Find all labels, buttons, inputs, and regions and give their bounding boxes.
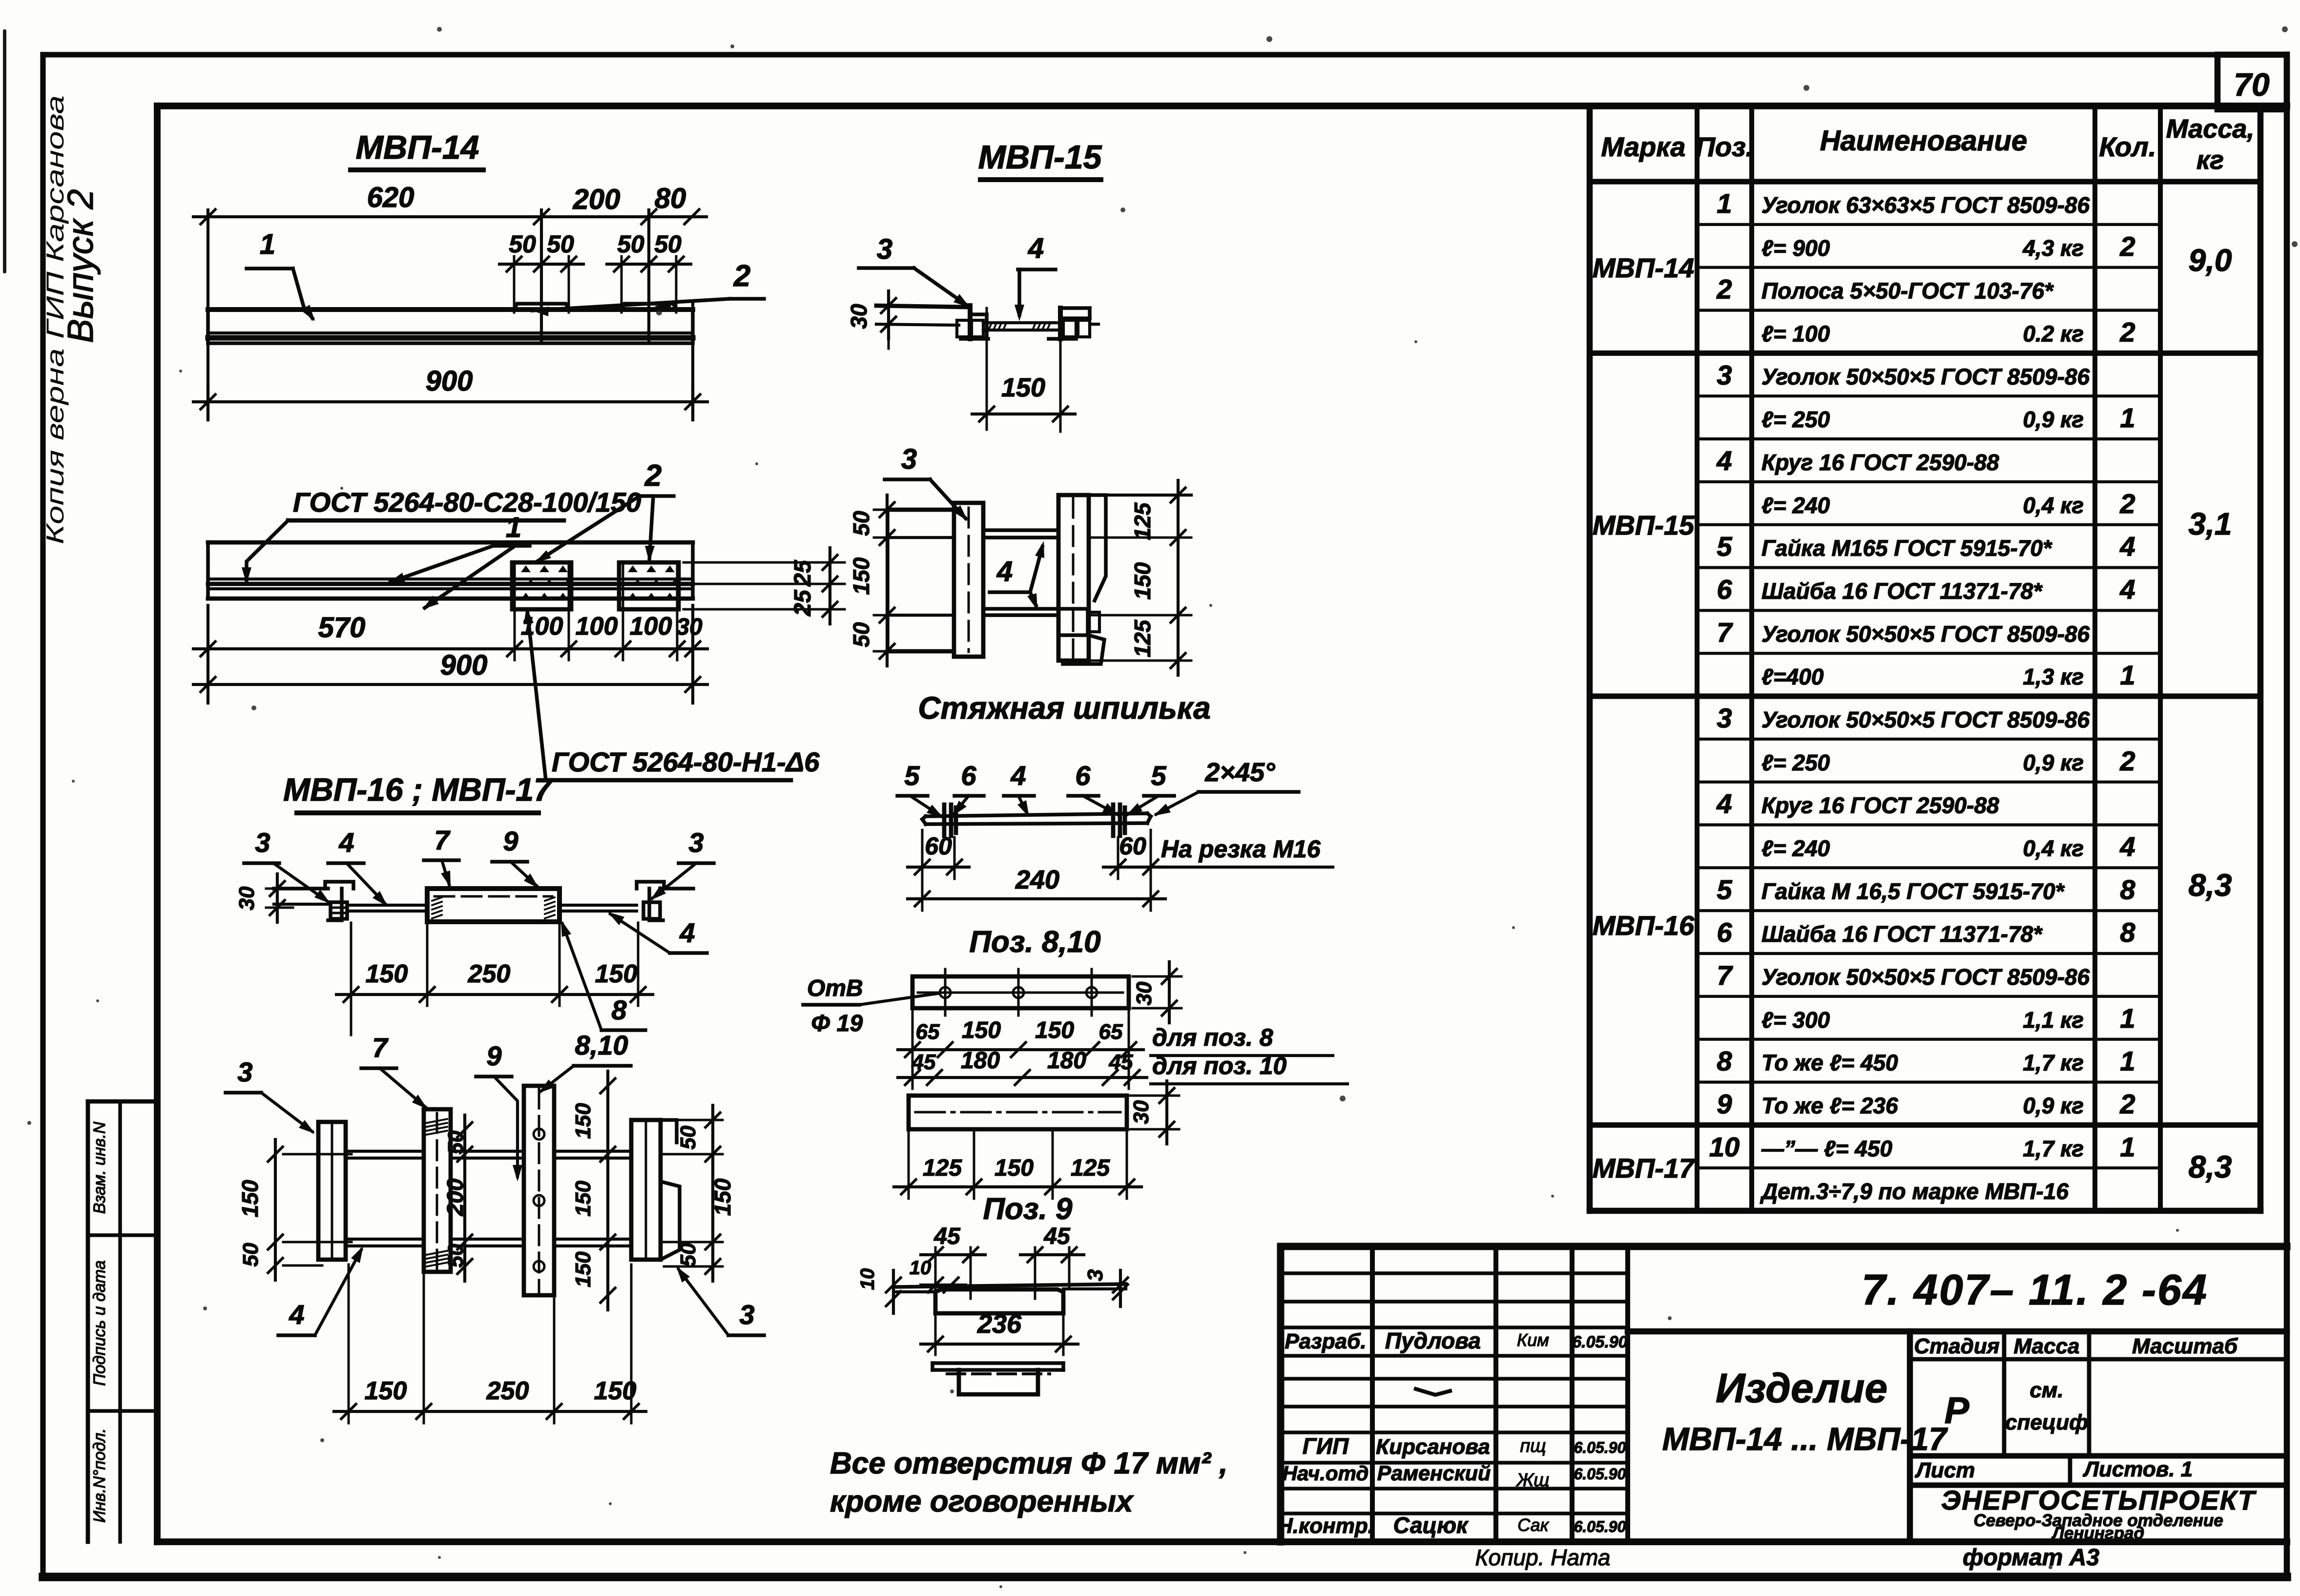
svg-text:1: 1 (2120, 1003, 2135, 1034)
mvp16 v1 dims 150 250 150 (336, 993, 653, 996)
svg-text:9,0: 9,0 (2189, 243, 2232, 278)
svg-text:100: 100 (576, 612, 618, 641)
svg-text:125: 125 (1071, 1155, 1110, 1181)
svg-text:То же ℓ= 236: То же ℓ= 236 (1761, 1093, 1898, 1118)
mvp14 v1 weld pads (514, 304, 569, 310)
svg-text:Стяжная шпилька: Стяжная шпилька (918, 690, 1210, 725)
poz810 dim 30 (1168, 962, 1171, 1023)
svg-text:Масса: Масса (2013, 1334, 2079, 1358)
drawing working frame (157, 103, 2287, 109)
svg-text:Круг 16 ГОСТ 2590-88: Круг 16 ГОСТ 2590-88 (1761, 450, 1999, 475)
svg-text:Шайба 16 ГОСТ 11371-78*: Шайба 16 ГОСТ 11371-78* (1761, 921, 2043, 947)
poz810 dims row for poz 10 (898, 1076, 1147, 1079)
svg-text:7: 7 (372, 1032, 389, 1063)
mvp16 v2 holes plate (524, 1086, 554, 1295)
svg-text:6: 6 (1717, 917, 1732, 948)
svg-text:125: 125 (1130, 619, 1155, 657)
svg-text:Стадия: Стадия (1914, 1334, 1999, 1358)
svg-text:9: 9 (503, 826, 518, 856)
mvp16 v2 rods (346, 1150, 424, 1153)
svg-text:МВП-15: МВП-15 (978, 139, 1102, 176)
margin stamp strip boxes (88, 1099, 157, 1104)
svg-text:Масштаб: Масштаб (2132, 1334, 2238, 1358)
svg-text:2: 2 (2119, 316, 2135, 347)
mvp16 v1 rod left (347, 904, 427, 907)
svg-text:МВП-14: МВП-14 (356, 129, 479, 166)
svg-text:3,1: 3,1 (2189, 506, 2232, 541)
svg-text:45: 45 (933, 1223, 961, 1249)
svg-text:150: 150 (594, 1377, 637, 1405)
svg-text:30: 30 (846, 304, 871, 329)
svg-text:3: 3 (255, 827, 270, 858)
svg-text:30: 30 (1129, 1100, 1153, 1124)
svg-text:150: 150 (237, 1180, 263, 1217)
svg-text:3: 3 (1717, 359, 1732, 390)
mvp15 v1 left clip angle (968, 306, 973, 339)
svg-text:150: 150 (571, 1251, 595, 1287)
svg-text:0,9 кг: 0,9 кг (2023, 407, 2084, 432)
poz7 plate with centerline (909, 1096, 1127, 1129)
svg-text:6.05.90: 6.05.90 (1572, 1333, 1628, 1351)
svg-text:2: 2 (2119, 488, 2135, 519)
svg-text:Инв.N°подл.: Инв.N°подл. (90, 1428, 109, 1522)
svg-text:Уголок 50×50×5 ГОСТ 8509-86: Уголок 50×50×5 ГОСТ 8509-86 (1761, 621, 2090, 646)
svg-text:8: 8 (611, 995, 627, 1025)
svg-text:4,3 кг: 4,3 кг (2022, 235, 2084, 261)
mvp16 v2 center dims 50 200 50 (463, 1115, 466, 1281)
svg-text:150: 150 (571, 1181, 595, 1217)
svg-text:Изделие: Изделие (1716, 1365, 1887, 1411)
svg-text:620: 620 (367, 182, 414, 213)
svg-text:150: 150 (366, 960, 408, 988)
svg-text:4: 4 (1010, 760, 1026, 791)
shpilka right washer nut (1111, 805, 1116, 836)
svg-text:5: 5 (1717, 874, 1732, 905)
svg-text:—”— ℓ= 450: —”— ℓ= 450 (1761, 1136, 1892, 1161)
svg-text:1: 1 (506, 512, 521, 543)
svg-text:Сацюк: Сацюк (1393, 1513, 1469, 1538)
svg-text:9: 9 (1717, 1088, 1732, 1119)
svg-text:МВП-14: МВП-14 (1593, 252, 1694, 283)
stadiya massa masshtab header (1910, 1357, 2287, 1362)
svg-text:3: 3 (901, 443, 917, 475)
svg-text:150: 150 (962, 1017, 1001, 1043)
svg-text:10: 10 (857, 1268, 878, 1290)
poz7 dim 30 (1165, 1081, 1168, 1144)
mvp15 v2 vertical plate (954, 503, 983, 657)
mvp15 v2 right bolt (1058, 609, 1088, 635)
svg-text:ГОСТ 5264-80-Н1-Δ6: ГОСТ 5264-80-Н1-Δ6 (552, 746, 820, 777)
shpilka rod (926, 813, 1147, 816)
svg-text:кроме оговоренных: кроме оговоренных (830, 1485, 1134, 1518)
svg-text:специф: специф (2005, 1410, 2088, 1434)
svg-text:4: 4 (996, 556, 1013, 587)
svg-text:кг: кг (2196, 145, 2224, 175)
svg-text:180: 180 (961, 1048, 1000, 1074)
svg-text:6.05.90: 6.05.90 (1574, 1465, 1626, 1483)
svg-text:Φ 19: Φ 19 (811, 1011, 863, 1036)
svg-text:1,1 кг: 1,1 кг (2023, 1007, 2084, 1033)
svg-text:для поз. 8: для поз. 8 (1152, 1024, 1273, 1051)
mvp14 v2 weld pad 2 hatched (619, 562, 679, 609)
mvp16 v1 left bracket (325, 882, 353, 889)
svg-text:50: 50 (547, 230, 574, 258)
svg-text:МВП-16: МВП-16 (1593, 910, 1695, 941)
svg-text:200: 200 (442, 1178, 468, 1216)
mvp15 v1 stud rod (983, 321, 1060, 324)
svg-text:125: 125 (923, 1155, 962, 1181)
poz9 bottom piece (932, 1361, 1063, 1365)
svg-text:0,4 кг: 0,4 кг (2023, 493, 2084, 518)
svg-text:5: 5 (1717, 531, 1732, 562)
svg-text:50: 50 (444, 1130, 468, 1154)
svg-text:4: 4 (2119, 831, 2135, 862)
poz810 dims row for poz 8 (898, 1048, 1143, 1051)
svg-text:На резка М16: На резка М16 (1161, 835, 1321, 863)
svg-text:2: 2 (2119, 746, 2135, 776)
poz810 plate (912, 976, 1129, 1008)
mvp16 v1 rod right (559, 904, 637, 907)
svg-text:50: 50 (676, 1125, 700, 1149)
svg-text:50: 50 (676, 1243, 700, 1266)
svg-text:150: 150 (710, 1178, 735, 1216)
svg-text:4: 4 (2119, 531, 2135, 562)
mvp15 v1 dim 150 (986, 308, 988, 430)
svg-text:8,10: 8,10 (575, 1030, 628, 1060)
poz810 holes (940, 987, 951, 998)
svg-text:9: 9 (486, 1040, 501, 1071)
svg-text:7. 407– 11. 2 -64: 7. 407– 11. 2 -64 (1862, 1265, 2208, 1314)
mvp15 v2 right dims 125 150 125 (1177, 480, 1180, 675)
svg-text:8: 8 (2120, 917, 2135, 948)
svg-text:Н.контр.: Н.контр. (1277, 1514, 1374, 1538)
svg-text:1: 1 (260, 228, 275, 260)
svg-text:Шайба 16 ГОСТ 11371-78*: Шайба 16 ГОСТ 11371-78* (1761, 578, 2043, 603)
mvp14 v2 extension lines down (207, 605, 209, 703)
svg-text:Гайка М165 ГОСТ 5915-70*: Гайка М165 ГОСТ 5915-70* (1761, 536, 2052, 561)
shpilka leaders (910, 796, 941, 816)
mvp16 v1 leaders (273, 863, 328, 902)
svg-text:125: 125 (1130, 502, 1155, 540)
svg-text:Разраб.: Разраб. (1285, 1329, 1366, 1353)
svg-text:см.: см. (2030, 1378, 2063, 1402)
shpilka dim 240 (908, 897, 1165, 900)
svg-text:8,3: 8,3 (2189, 1149, 2232, 1184)
mvp14 v1 angle bar body (208, 307, 693, 312)
mvp15 v2 right angle flag top (1089, 495, 1106, 601)
svg-text:3: 3 (877, 233, 892, 265)
svg-text:570: 570 (318, 612, 366, 643)
mvp15 v1 right nut (1063, 320, 1076, 337)
mvp16 v1 left nut (331, 902, 347, 919)
product name cell (1907, 1331, 1913, 1542)
svg-text:65: 65 (916, 1020, 940, 1044)
mvp16 v2 left plate (318, 1122, 346, 1260)
svg-text:Поз. 8,10: Поз. 8,10 (969, 925, 1100, 959)
svg-text:6: 6 (1075, 760, 1091, 791)
sheet outer border (43, 52, 2287, 57)
svg-text:2: 2 (2119, 231, 2135, 262)
svg-text:Уголок 63×63×5 ГОСТ 8509-86: Уголок 63×63×5 ГОСТ 8509-86 (1761, 192, 2090, 218)
svg-text:2: 2 (644, 459, 662, 493)
svg-text:8: 8 (2120, 874, 2135, 905)
svg-text:0,9 кг: 0,9 кг (2023, 750, 2084, 775)
poz7 dims 125 150 125 (894, 1185, 1141, 1188)
svg-text:100: 100 (630, 612, 672, 641)
page number box 70 (2217, 55, 2287, 109)
svg-text:1,7 кг: 1,7 кг (2023, 1136, 2084, 1161)
mvp14 v1 dim 900 (207, 386, 209, 420)
doc number cell 7.407-11.2-64 (1628, 1328, 2287, 1335)
svg-text:4: 4 (2119, 574, 2135, 604)
svg-text:Уголок 50×50×5 ГОСТ 8509-86: Уголок 50×50×5 ГОСТ 8509-86 (1761, 364, 2090, 389)
svg-text:150: 150 (571, 1103, 595, 1139)
svg-text:80: 80 (655, 183, 686, 214)
svg-text:150: 150 (1001, 373, 1045, 402)
svg-text:3: 3 (1717, 703, 1732, 733)
mvp16 v1 center block (427, 889, 559, 922)
svg-text:7: 7 (1717, 617, 1733, 647)
weld zigzag marks (521, 565, 531, 572)
svg-text:45: 45 (1043, 1223, 1071, 1249)
svg-text:240: 240 (1015, 865, 1059, 894)
svg-text:25: 25 (790, 589, 816, 617)
mvp14 v1 dim 620 200 80 (193, 215, 706, 218)
svg-text:150: 150 (365, 1377, 407, 1405)
svg-text:То же ℓ= 450: То же ℓ= 450 (1761, 1050, 1898, 1076)
svg-text:МВП-14 ... МВП-17: МВП-14 ... МВП-17 (1662, 1421, 1948, 1457)
staff table grid (1370, 1246, 1375, 1542)
svg-text:8,3: 8,3 (2189, 868, 2232, 903)
mvp15 v2 left dims 50 150 50 (886, 495, 889, 666)
svg-text:0.2 кг: 0.2 кг (2023, 321, 2084, 346)
mvp14 v2 bar body (208, 540, 693, 545)
svg-text:2: 2 (733, 259, 750, 293)
svg-text:70: 70 (2234, 66, 2270, 103)
svg-text:2: 2 (1716, 274, 1732, 305)
svg-text:1: 1 (2120, 660, 2135, 690)
svg-text:2: 2 (2119, 1088, 2135, 1119)
poz9 top bar (895, 1284, 1126, 1287)
svg-text:50: 50 (849, 511, 874, 536)
mvp15 v2 top ext line right (1058, 494, 1191, 497)
shpilka dims 60 60 (921, 830, 924, 879)
svg-text:ℓ= 100: ℓ= 100 (1761, 321, 1830, 346)
svg-text:Кол.: Кол. (2099, 131, 2156, 162)
svg-text:МВП-17: МВП-17 (1593, 1153, 1696, 1183)
svg-text:10: 10 (910, 1257, 932, 1279)
mvp16 v2 left dims 150 50 (274, 1140, 277, 1280)
svg-text:1: 1 (2120, 402, 2135, 433)
svg-text:60: 60 (1119, 832, 1146, 860)
svg-text:МВП-16 ; МВП-17: МВП-16 ; МВП-17 (283, 771, 553, 808)
mvp16 v2 right bracket (631, 1120, 661, 1260)
svg-text:180: 180 (1047, 1048, 1086, 1074)
svg-text:900: 900 (426, 365, 473, 397)
svg-text:6: 6 (1717, 574, 1732, 604)
mvp15 v2 right flag bottom (1063, 635, 1104, 664)
svg-text:1: 1 (1717, 188, 1732, 219)
mvp15 v2 studs (983, 528, 1058, 532)
svg-text:МВП-15: МВП-15 (1593, 510, 1695, 540)
svg-text:Нач.отд: Нач.отд (1283, 1462, 1369, 1485)
svg-text:Дет.3÷7,9 по марке МВП-16: Дет.3÷7,9 по марке МВП-16 (1760, 1179, 2069, 1204)
svg-text:формат А3: формат А3 (1963, 1545, 2099, 1571)
svg-text:3: 3 (237, 1057, 252, 1087)
svg-text:Уголок 50×50×5 ГОСТ 8509-86: Уголок 50×50×5 ГОСТ 8509-86 (1761, 707, 2090, 732)
mvp16 v2 center angle block (424, 1109, 451, 1272)
shpilka left nut washer (942, 805, 947, 836)
svg-text:Полоса 5×50-ГОСТ 103-76*: Полоса 5×50-ГОСТ 103-76* (1761, 278, 2054, 304)
svg-text:60: 60 (925, 832, 952, 860)
svg-text:250: 250 (486, 1377, 529, 1405)
svg-text:5: 5 (1151, 760, 1166, 791)
svg-text:4: 4 (289, 1299, 304, 1330)
svg-text:7: 7 (1717, 960, 1733, 991)
svg-text:50: 50 (617, 230, 644, 258)
svg-text:0,9 кг: 0,9 кг (2023, 1093, 2084, 1118)
bottom line of title block (1281, 1538, 2287, 1545)
svg-text:0,4 кг: 0,4 кг (2023, 835, 2084, 861)
svg-text:50: 50 (509, 230, 536, 258)
svg-text:150: 150 (595, 960, 638, 988)
svg-text:50: 50 (239, 1243, 263, 1266)
svg-text:236: 236 (977, 1309, 1022, 1339)
svg-text:Масса,: Масса, (2166, 114, 2255, 144)
svg-text:Пудлова: Пудлова (1385, 1328, 1481, 1353)
svg-text:2×45°: 2×45° (1204, 758, 1275, 787)
svg-text:3: 3 (1083, 1269, 1107, 1281)
svg-text:Сак: Сак (1517, 1515, 1549, 1535)
svg-text:ℓ= 240: ℓ= 240 (1761, 835, 1830, 861)
svg-text:900: 900 (440, 649, 488, 681)
poz9 dim 236 (934, 1316, 937, 1355)
svg-text:30: 30 (676, 614, 703, 640)
svg-text:150: 150 (1130, 562, 1155, 600)
mvp16 v1 left bar (274, 887, 328, 891)
svg-text:Выпуск 2: Выпуск 2 (60, 189, 101, 343)
mvp14 v2 dim 25 25 right (829, 548, 831, 624)
mvp16 v2 right dims column a (606, 1071, 609, 1310)
mvp14 v1 extension lines (207, 210, 209, 420)
svg-text:1,3 кг: 1,3 кг (2023, 664, 2084, 689)
svg-text:Поз. 9: Поз. 9 (983, 1192, 1073, 1226)
mvp15 v2 left angle plan (888, 508, 954, 512)
svg-text:6.05.90: 6.05.90 (1574, 1518, 1626, 1535)
svg-text:ℓ= 300: ℓ= 300 (1761, 1007, 1830, 1033)
svg-text:3: 3 (739, 1299, 754, 1330)
svg-text:4: 4 (1716, 788, 1732, 819)
svg-text:3: 3 (688, 827, 704, 858)
mvp16 v2 bottom dims 150 250 150 (334, 1410, 646, 1413)
svg-text:1: 1 (2120, 1046, 2135, 1077)
svg-text:Р: Р (1945, 1390, 1969, 1431)
svg-text:250: 250 (468, 960, 511, 988)
mvp15 v1 left bar (876, 306, 969, 307)
svg-text:8: 8 (1717, 1046, 1732, 1077)
svg-text:для поз. 10: для поз. 10 (1152, 1052, 1287, 1079)
svg-text:200: 200 (573, 184, 621, 215)
svg-text:5: 5 (904, 760, 920, 791)
svg-text:7: 7 (434, 825, 451, 855)
svg-text:4: 4 (1716, 445, 1732, 476)
poz9 trapezoid block (935, 1289, 1063, 1313)
svg-text:Гайка М 16,5 ГОСТ 5915-70*: Гайка М 16,5 ГОСТ 5915-70* (1761, 878, 2065, 904)
svg-text:Круг 16 ГОСТ 2590-88: Круг 16 ГОСТ 2590-88 (1761, 793, 1999, 818)
mvp16 v2 right dims column b (711, 1105, 714, 1281)
svg-text:30: 30 (1132, 981, 1156, 1005)
svg-text:Ким: Ким (1517, 1330, 1549, 1350)
mvp15 v1 right clip angle (1058, 308, 1063, 339)
svg-text:Взам. инв.N: Взам. инв.N (90, 1121, 109, 1214)
mvp14 v2 dims 570 100 100 100 30 (193, 647, 707, 650)
svg-text:6: 6 (961, 760, 976, 791)
svg-text:ГОСТ 5264-80-С28-100/150: ГОСТ 5264-80-С28-100/150 (293, 487, 641, 518)
svg-text:Листов. 1: Листов. 1 (2083, 1457, 2193, 1481)
svg-text:пщ: пщ (1520, 1436, 1546, 1456)
svg-text:150: 150 (995, 1155, 1034, 1181)
mvp15 v2 right plate (1058, 495, 1089, 661)
svg-text:Жщ: Жщ (1515, 1470, 1549, 1491)
svg-text:ОтВ: ОтВ (807, 975, 863, 1001)
svg-text:45: 45 (912, 1050, 936, 1074)
svg-text:ℓ= 900: ℓ= 900 (1761, 235, 1830, 261)
mvp16 v1 dim 30 (276, 874, 279, 922)
svg-text:Марка: Марка (1601, 131, 1686, 162)
svg-text:Лист: Лист (1915, 1458, 1975, 1482)
svg-text:Уголок 50×50×5 ГОСТ 8509-86: Уголок 50×50×5 ГОСТ 8509-86 (1761, 964, 2090, 990)
svg-text:50: 50 (444, 1244, 468, 1267)
mvp16 v1 right bracket (637, 882, 664, 889)
svg-text:4: 4 (679, 917, 695, 948)
svg-text:Наименование: Наименование (1820, 125, 2027, 157)
energosetproekt cell (1910, 1482, 2287, 1488)
svg-text:4: 4 (338, 827, 354, 858)
svg-text:150: 150 (849, 557, 874, 595)
svg-text:50: 50 (849, 622, 874, 647)
svg-text:Кирсанова: Кирсанова (1376, 1435, 1490, 1459)
svg-text:Подпись и дата: Подпись и дата (90, 1260, 109, 1386)
svg-text:ℓ=400: ℓ=400 (1761, 664, 1824, 689)
mvp14 v1 dims 50 50 pairs (499, 263, 583, 266)
mvp15 v1 left nut (957, 320, 970, 337)
svg-text:ℓ= 250: ℓ= 250 (1761, 750, 1830, 775)
svg-text:Поз.: Поз. (1696, 131, 1754, 162)
svg-text:30: 30 (235, 886, 259, 910)
svg-text:10: 10 (1709, 1131, 1740, 1162)
mvp14 v2 weld pad 1 hatched (512, 562, 571, 609)
svg-text:50: 50 (654, 230, 682, 258)
svg-text:Раменский: Раменский (1377, 1462, 1491, 1485)
svg-text:ℓ= 250: ℓ= 250 (1761, 407, 1830, 432)
check mark squiggle (1416, 1389, 1450, 1395)
mvp15 v1 dim 30 (887, 291, 890, 339)
svg-text:ℓ= 240: ℓ= 240 (1761, 493, 1830, 518)
svg-text:Копир. Ната: Копир. Ната (1475, 1545, 1611, 1570)
mvp14 v2 dim 900 (193, 683, 707, 686)
svg-text:6.05.90: 6.05.90 (1574, 1439, 1626, 1456)
svg-text:1,7 кг: 1,7 кг (2023, 1050, 2084, 1076)
title block outer (1281, 1243, 2287, 1250)
list row (1910, 1453, 2287, 1458)
spec table grid (1587, 106, 1593, 1211)
svg-text:ГИП: ГИП (1303, 1433, 1349, 1459)
svg-text:4: 4 (1028, 232, 1044, 264)
svg-text:150: 150 (1035, 1017, 1074, 1043)
svg-text:1: 1 (2120, 1131, 2135, 1162)
svg-text:Все отверстия Φ 17 мм² ,: Все отверстия Φ 17 мм² , (830, 1447, 1228, 1480)
svg-text:65: 65 (1099, 1020, 1123, 1044)
